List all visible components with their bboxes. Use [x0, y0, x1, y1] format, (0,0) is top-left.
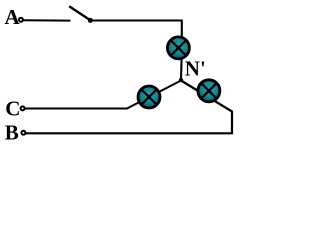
terminal C	[21, 106, 25, 110]
terminal B	[21, 131, 25, 135]
lamp L3 (right, phase B)	[198, 80, 220, 102]
svg-text:N': N'	[185, 57, 206, 81]
svg-text:B: B	[5, 120, 19, 144]
lamp L2 (left, phase C)	[138, 86, 160, 108]
wire node N' to terminal B	[26, 81, 232, 134]
wire node N' to terminal C	[25, 81, 182, 109]
lamp L1 (top, phase A)	[167, 37, 189, 59]
wire lamp L1 bottom to node N'	[180, 58, 183, 80]
wire A terminal to switch	[23, 19, 71, 21]
terminal A	[19, 18, 23, 22]
switch S1 pivot dot	[88, 18, 93, 23]
svg-text:C: C	[5, 96, 20, 120]
svg-text:A: A	[5, 5, 21, 29]
switch S1 blade (open)	[69, 6, 90, 20]
wire switch to top-right corner	[92, 21, 182, 39]
node N' junction dot	[179, 78, 183, 82]
